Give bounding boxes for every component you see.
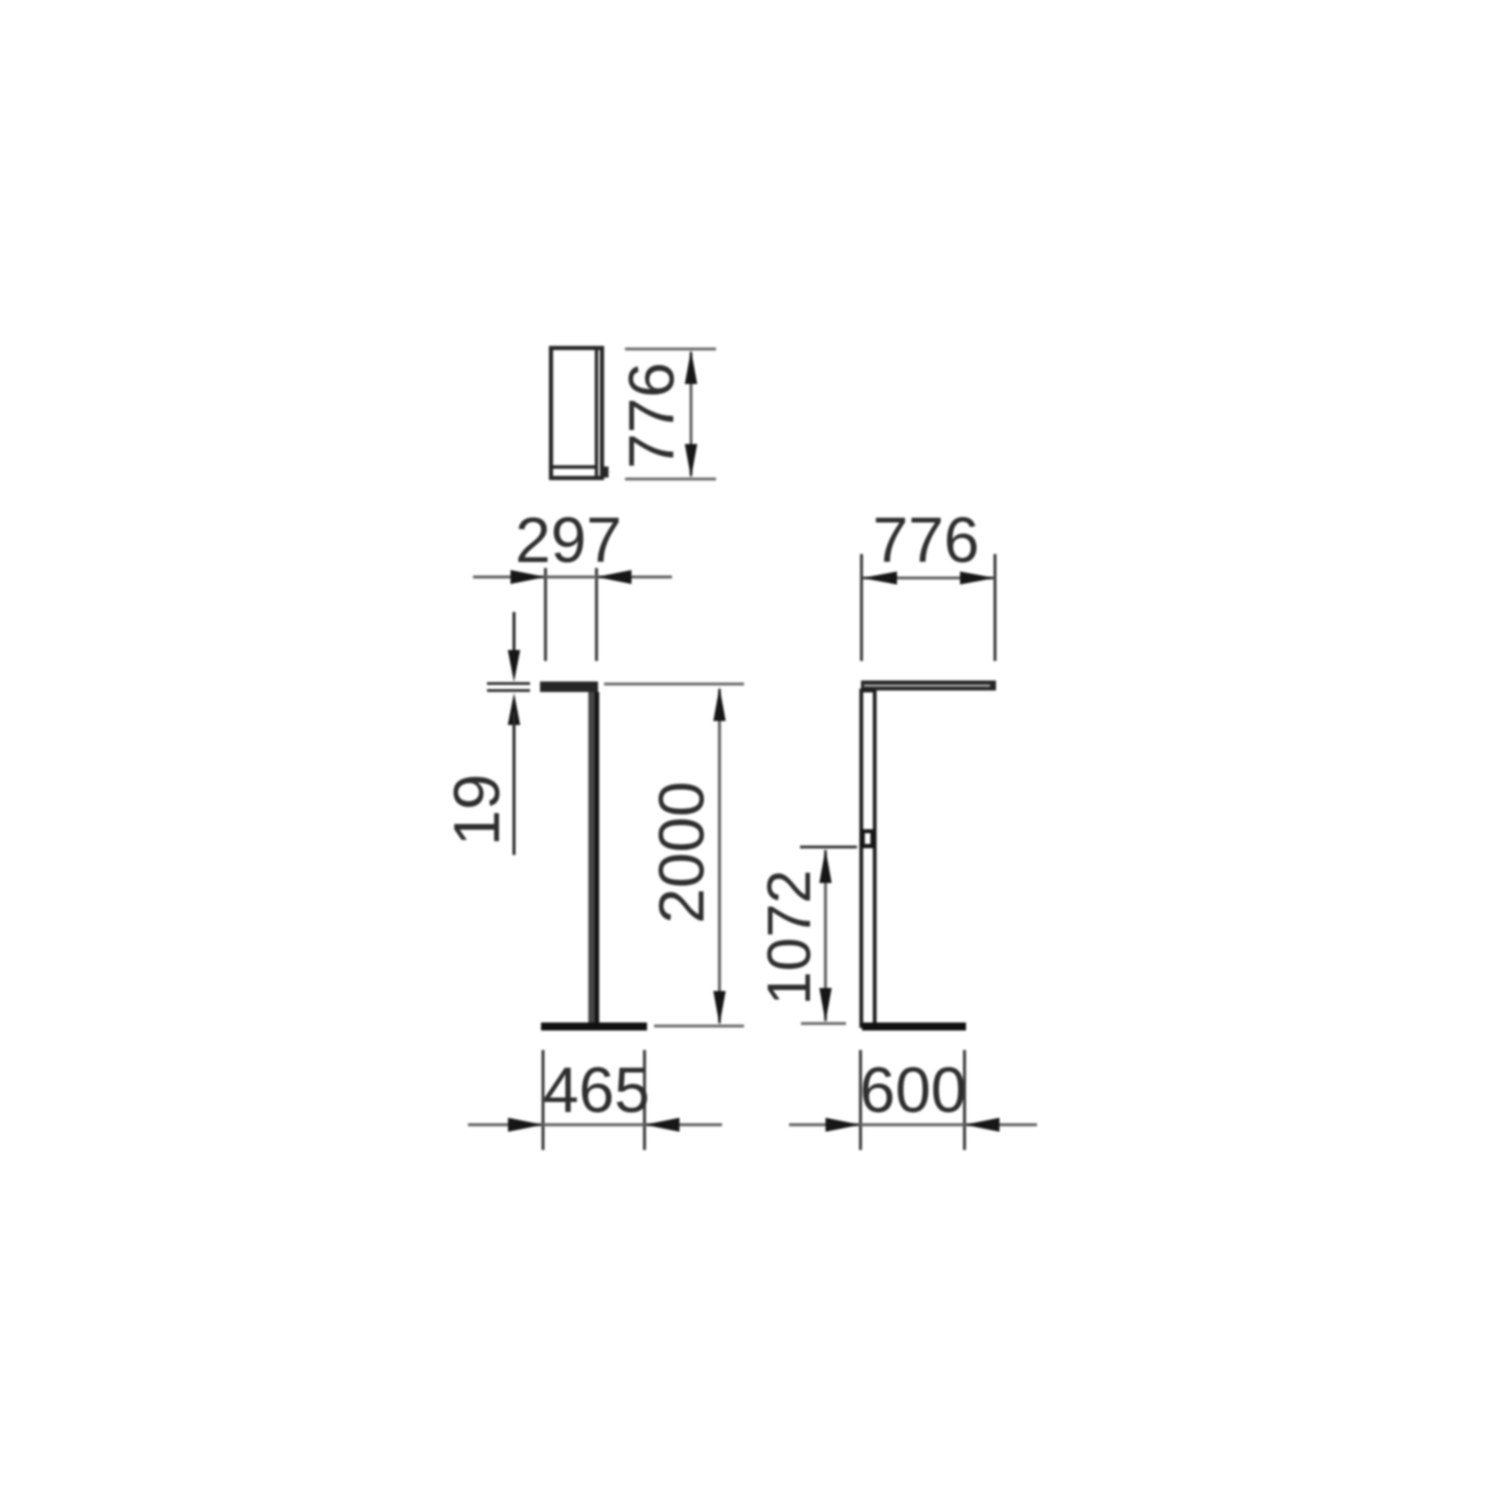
dim 776 (front) dimension line [863, 577, 994, 580]
front view: switch slot [865, 833, 871, 844]
dim 776 (front) arrow right [960, 572, 995, 585]
front view: head bar inner highlight line [864, 684, 990, 686]
dim 465 arrow (pointing left) [645, 1118, 680, 1132]
dim 297 right extension line [595, 568, 598, 661]
front view: pole [861, 691, 874, 1027]
dim 297 arrow (outside, pointing right) [511, 570, 546, 584]
side view: lamp head bar [540, 682, 598, 693]
dim 2000 arrow down [713, 991, 725, 1025]
front view: lamp head bar [861, 681, 996, 691]
dim 776 (top view) arrow up [685, 350, 697, 384]
dim 2000 bottom extension line [654, 1025, 744, 1028]
dim 600 left extension line [859, 1050, 862, 1150]
dim 600 arrow (pointing left) [965, 1118, 1000, 1132]
dim 1072 bottom extension line [801, 1022, 846, 1025]
dim 2000 arrow up [713, 687, 725, 721]
svg-text:297: 297 [515, 504, 622, 576]
dim 19 upper arrow (pointing down) [508, 650, 520, 682]
svg-text:465: 465 [543, 1054, 650, 1126]
svg-text:776: 776 [873, 504, 980, 576]
dim 776 (top view) arrow down [685, 444, 697, 478]
dim 297 left extension line [544, 568, 547, 661]
dim 465 arrow (pointing right) [508, 1118, 543, 1132]
dim 465 right extension line [643, 1050, 646, 1150]
front view: switch on pole [860, 829, 876, 848]
svg-text:600: 600 [860, 1054, 967, 1126]
svg-text:776: 776 [616, 362, 688, 469]
dim 465 left extension line [542, 1050, 545, 1150]
front view: base plate [862, 1023, 966, 1031]
svg-text:19: 19 [440, 774, 513, 846]
dim 600 arrow (pointing right) [826, 1118, 861, 1132]
dim 600 right extension line [963, 1050, 966, 1150]
svg-text:1072: 1072 [755, 870, 823, 1006]
dim 1072 dimension line [824, 850, 827, 1021]
dim 776 (top view) top extension line [625, 348, 716, 351]
dim 19 lower arrow (pointing up) [508, 693, 520, 725]
dim 776 (front) right extension line [994, 554, 997, 661]
dim 19 upper shaft [513, 612, 516, 670]
dim 776 (top view) dimension line [690, 352, 693, 476]
dim 600 dimension line [789, 1123, 1037, 1126]
top view: inner vertical line (right panel edge) [595, 350, 598, 477]
dim 1072 arrow down [819, 988, 831, 1022]
side view: pole [588, 692, 599, 1026]
top view: lamp head profile outer rectangle [551, 348, 602, 478]
dim 776 (front) left extension line [860, 554, 863, 661]
dim 297 arrow (outside, pointing left) [597, 570, 632, 584]
dim 465 dimension line [468, 1123, 722, 1126]
dim 19 lower shaft [513, 712, 516, 855]
dim 297 dimension line [473, 576, 672, 579]
dim 1072 top extension line [800, 846, 857, 849]
dim 776 (front) arrow left [862, 572, 897, 585]
top view: inner bottom horizontal line [552, 465, 597, 468]
top view: small tab bottom-right [600, 467, 609, 478]
dim 776 (top view) bottom extension line [625, 478, 716, 481]
dim 1072 arrow up [819, 849, 831, 883]
side view: base plate [541, 1023, 647, 1031]
dim 19 top tick [487, 682, 530, 685]
dim 2000 dimension line [718, 689, 721, 1023]
svg-text:2000: 2000 [646, 781, 718, 923]
dim 19 bottom tick [487, 689, 530, 692]
dim 2000 top extension line [604, 683, 744, 686]
